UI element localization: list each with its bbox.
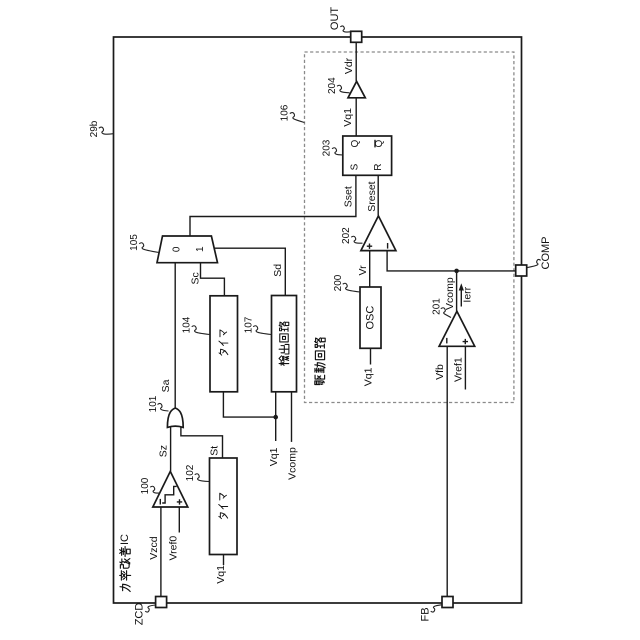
wire OSC bottom stub Vq1 — [370, 348, 372, 364]
svg-text:Vr: Vr — [357, 265, 369, 276]
multiplexer 105 — [129, 234, 218, 263]
detection circuit 107 — [243, 296, 296, 392]
svg-text:Vq1: Vq1 — [342, 108, 354, 127]
wire detection 107 left stub down (Vq1) — [275, 392, 277, 441]
svg-text:202: 202 — [341, 227, 352, 244]
wire Vref0 stub — [178, 507, 180, 533]
svg-text:ZCD: ZCD — [134, 603, 146, 626]
svg-text:200: 200 — [333, 274, 344, 291]
wire detection 107 right stub (Vcomp) — [291, 392, 293, 442]
svg-text:1: 1 — [195, 246, 206, 252]
wire Vfb: FB terminal to error amp minus input — [446, 346, 448, 596]
wire comparator 202 minus input to COMP line — [387, 251, 516, 271]
svg-text:Sa: Sa — [160, 379, 172, 392]
svg-text:Sreset: Sreset — [366, 181, 378, 211]
wire Vzcd: ZCD terminal to comparator 100 minus input — [160, 507, 162, 597]
OR gate 101 — [148, 395, 183, 427]
svg-text:Q: Q — [350, 139, 361, 147]
timer 104 — [182, 296, 238, 392]
svg-text:201: 201 — [431, 298, 442, 315]
wire Vref1 stub — [464, 346, 466, 389]
wire St: timer 102 output to OR gate right input — [181, 427, 223, 459]
dashed drive-circuit box 106 — [305, 52, 514, 403]
terminal COMP — [516, 237, 552, 277]
terminal FB — [420, 597, 454, 622]
label 29b — [89, 120, 113, 137]
comparator 202 — [341, 216, 396, 251]
wire timer 104 bottom to junction — [223, 392, 275, 417]
timer 102 — [185, 458, 237, 555]
error amplifier 201 — [431, 298, 474, 347]
svg-text:Vzcd: Vzcd — [148, 536, 160, 560]
svg-text:101: 101 — [148, 395, 159, 412]
oscillator OSC 200 — [333, 274, 381, 348]
driver (buffer) 204 — [327, 77, 365, 98]
svg-text:St: St — [209, 446, 221, 456]
terminal OUT — [329, 7, 362, 43]
svg-text:Sd: Sd — [272, 264, 284, 277]
wire error amp output to COMP line — [456, 271, 458, 311]
wire Sc: timer 104 output to mux input 1 — [201, 263, 225, 296]
svg-text:204: 204 — [327, 77, 338, 94]
svg-text:Sz: Sz — [158, 445, 170, 457]
svg-text:Vref1: Vref1 — [452, 357, 464, 382]
svg-text:Vq1: Vq1 — [362, 367, 374, 386]
svg-text:104: 104 — [182, 316, 193, 333]
wire OUT to driver 204 — [355, 42, 357, 81]
svg-text:29b: 29b — [89, 120, 100, 137]
svg-text:OSC: OSC — [365, 306, 377, 330]
comparator 100 (with hysteresis) — [140, 471, 188, 507]
label 力率改善IC (PFC IC) — [119, 534, 131, 592]
label 106 — [280, 104, 305, 122]
terminal ZCD — [134, 597, 167, 626]
wire timer 102 bottom stub — [223, 555, 225, 566]
svg-text:0: 0 — [171, 246, 182, 252]
svg-text:Vcomp: Vcomp — [286, 447, 298, 480]
svg-text:Sset: Sset — [343, 186, 355, 207]
svg-text:102: 102 — [185, 464, 196, 481]
svg-text:S: S — [350, 163, 361, 170]
svg-text:Vdr: Vdr — [343, 57, 355, 74]
svg-text:Vq1: Vq1 — [268, 447, 280, 466]
wire Sa: OR gate 101 output to mux input 0 — [174, 263, 176, 408]
svg-text:Vref0: Vref0 — [168, 536, 180, 561]
svg-text:COMP: COMP — [540, 237, 552, 270]
wire Sset: mux output to S input — [190, 175, 356, 236]
wire Sreset: comparator 202 output to R input — [377, 175, 379, 216]
svg-text:Vq1: Vq1 — [215, 565, 227, 584]
svg-text:203: 203 — [322, 139, 333, 156]
svg-text:106: 106 — [280, 104, 291, 121]
svg-text:100: 100 — [140, 477, 151, 494]
wire Sd: detection circuit 107 output to mux select — [214, 248, 285, 295]
IC boundary rect 29b — [114, 37, 522, 603]
wire Sz: comparator 100 output to OR gate left input — [170, 426, 172, 471]
wire driver 204 to FF Q — [355, 98, 357, 136]
junction dot on COMP line — [454, 269, 459, 274]
svg-text:OUT: OUT — [329, 7, 341, 31]
svg-text:107: 107 — [243, 316, 254, 333]
svg-text:Vcomp: Vcomp — [444, 277, 456, 310]
svg-text:R: R — [373, 164, 384, 171]
svg-text:Sc: Sc — [190, 272, 202, 284]
wire OSC to comparator 202 plus input — [369, 251, 371, 287]
label 駆動回路 (drive circuit) — [315, 338, 325, 385]
svg-text:IC: IC — [119, 534, 131, 545]
SR flip-flop 203 — [322, 136, 392, 175]
svg-text:Ierr: Ierr — [461, 286, 473, 302]
junction dot Vq1 node — [273, 415, 278, 420]
svg-text:Vfb: Vfb — [434, 364, 446, 380]
svg-text:105: 105 — [129, 234, 140, 251]
Ierr arrow — [459, 283, 474, 306]
svg-text:FB: FB — [420, 607, 432, 621]
